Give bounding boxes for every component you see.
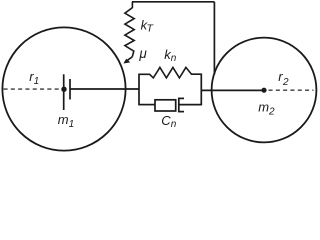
damper Cn piston flange top [179,97,184,99]
hub dot m2 [261,88,266,93]
frame drop to m2 rim [213,2,215,75]
svg-text:μ: μ [138,46,147,61]
wheel m2 (right circle) [212,38,317,143]
damper rod right [179,104,202,106]
right bracket [200,74,202,106]
dashed radius r2 [269,89,314,91]
contact arrow mu [125,57,132,62]
damper Cn piston plate [178,98,180,113]
damper Cn piston flange bottom [179,111,184,113]
left bracket [138,74,140,106]
dashed radius r1 [4,88,62,90]
damper rod left [139,104,155,106]
spring kn [139,67,201,78]
top frame line [132,1,214,3]
rod from m1 axle to left bracket [70,88,139,90]
spring kT [125,2,134,57]
hub dot m1 [61,87,66,92]
clevis bar m1 [69,79,71,100]
damper Cn cylinder [155,100,176,111]
rod from right bracket to m2 axle [201,89,262,91]
axle line m1 [63,74,65,110]
wheel m1 (left circle) [2,27,125,150]
